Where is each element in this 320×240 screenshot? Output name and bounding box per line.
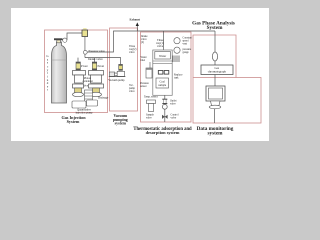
wire: intake line — [85, 58, 121, 65]
sample cell right — [89, 71, 104, 84]
svg-text:valve: valve — [157, 45, 164, 48]
svg-text:Vacuum pump: Vacuum pump — [108, 79, 125, 82]
wire: cylinder to reducing valve — [67, 33, 82, 40]
svg-text:Intake valve: Intake valve — [88, 57, 103, 61]
coal sample box — [156, 78, 169, 88]
svg-text:valve: valve — [146, 117, 152, 120]
wire chromatograph to monitor — [214, 75, 216, 87]
svg-text:sensor: sensor — [140, 85, 147, 88]
lower vessel right with yellow — [89, 84, 104, 97]
svg-text:system: system — [208, 131, 224, 137]
wire down to chromatograph — [214, 31, 216, 52]
svg-text:system: system — [115, 122, 127, 126]
wire below vessel — [164, 95, 166, 122]
wire: exhaust riser — [136, 24, 138, 32]
svg-text:System: System — [67, 119, 80, 124]
svg-text:Temp. sensor: Temp. sensor — [144, 96, 158, 99]
vacuum pump boxes — [109, 72, 114, 76]
reference cell left — [73, 71, 86, 84]
svg-text:Water: Water — [159, 54, 166, 58]
piston column — [85, 90, 93, 102]
svg-text:valve: valve — [170, 103, 176, 106]
svg-text:System: System — [207, 25, 224, 31]
system group box: Gas Injection System — [45, 30, 108, 113]
pressure reducing valve (yellow) — [82, 28, 88, 37]
svg-text:(2): (2) — [141, 41, 144, 44]
svg-text:valve: valve — [129, 51, 135, 54]
system group box: Vacuum pumping system — [110, 28, 138, 111]
svg-text:sample: sample — [158, 84, 167, 87]
svg-text:valve: valve — [129, 90, 135, 93]
system group box: Gas Phase Analysis System — [193, 35, 236, 78]
system group box: Thermostatic adsorption and desorption system — [141, 32, 192, 122]
exhaust arrowhead — [136, 22, 139, 26]
svg-text:P2out: P2out — [98, 65, 105, 68]
pressure gauge circle — [83, 50, 87, 54]
rotameter oval — [212, 52, 217, 61]
svg-text:Drainage: Drainage — [98, 97, 109, 100]
svg-text:tank: tank — [174, 77, 179, 80]
wire: main line to exhaust / analysis — [87, 31, 215, 52]
svg-text:container: container — [83, 80, 93, 83]
heater cylinder left of vessel — [146, 62, 152, 78]
valve glyph 2 — [162, 104, 167, 109]
wire: reducing valve down — [84, 37, 86, 51]
system group box: Data monitoring system — [193, 78, 261, 124]
vacuum valve (yellow) — [119, 64, 123, 70]
wire: riser into vessel — [163, 31, 165, 50]
valve P1 (yellow) — [76, 62, 80, 70]
wire: stubs to P valves — [77, 58, 79, 62]
svg-text:inlet: inlet — [141, 59, 146, 62]
injection pump boxes — [72, 101, 86, 108]
hatched block — [173, 56, 179, 63]
svg-text:gauge: gauge — [183, 51, 190, 54]
svg-text:desorption system: desorption system — [146, 130, 180, 135]
hatch band — [158, 71, 163, 75]
svg-text:Exhaust: Exhaust — [130, 18, 141, 22]
gas cylinder — [52, 42, 67, 103]
computer monitor — [206, 86, 225, 109]
adsorption vessel — [153, 50, 172, 95]
flask below left — [147, 100, 156, 112]
svg-text:vent: vent — [183, 43, 188, 46]
valve glyph 1 — [162, 99, 167, 103]
svg-text:chromatograph: chromatograph — [208, 70, 227, 74]
lower vessel left with yellow — [73, 84, 84, 97]
gauge circles right of vessel — [174, 38, 180, 44]
cylinder valve — [54, 38, 67, 43]
valve P2 (yellow) — [92, 62, 96, 70]
gas chromatograph box — [201, 65, 233, 75]
svg-text:P1out: P1out — [81, 65, 88, 68]
valve bowtie — [162, 115, 165, 119]
svg-text:valve: valve — [171, 117, 177, 120]
svg-text:Pressure valve: Pressure valve — [89, 50, 106, 53]
wire below monitor — [214, 109, 216, 123]
white page — [11, 8, 269, 141]
